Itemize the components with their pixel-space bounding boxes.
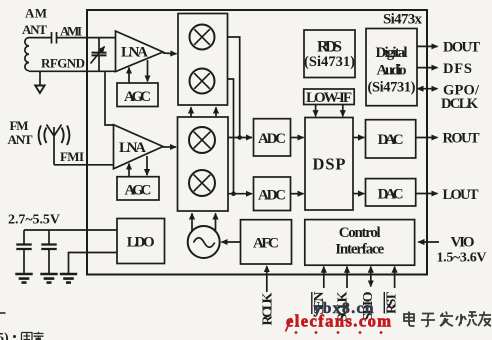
svg-text:DAC: DAC [378,187,404,203]
svg-text:RDS: RDS [317,39,342,56]
LOW-IF box [304,89,355,105]
wire FM mixer to ADC1 [228,137,252,139]
svg-text:AM: AM [25,6,47,21]
wire AM mixer Q output [228,79,234,194]
svg-text:LOW-IF: LOW-IF [306,90,352,106]
capacitor C2 lower lead [48,249,50,274]
svg-text:DCLK: DCLK [441,96,479,112]
watermark CJK 电 [404,312,415,327]
svg-text:LOUT: LOUT [443,187,479,203]
varactor branch wire bottom [98,55,100,71]
wire RST input [394,267,396,288]
svg-text:Control: Control [339,225,381,241]
chip boundary Si473x [87,10,427,275]
capacitor C2 [41,245,56,250]
variable capacitor plates [92,53,107,56]
wire SEN input [323,267,325,288]
wire LO to AM mixer arrow 2 [215,107,217,117]
ADC2 box [254,177,291,211]
ground AM antenna (open triangle) [35,86,44,94]
svg-text:DSP: DSP [313,155,346,174]
AGC2 box (FM) [117,177,159,200]
FM antenna symbol [47,125,62,144]
capacitor C1 [16,245,31,250]
wire LNA2 to AGC2 down arrow [146,156,148,175]
wire antenna ground drop [39,71,41,85]
svg-text:ROUT: ROUT [443,131,480,147]
watermark CJK 烧 [456,312,477,326]
AGC1 box (AM) [117,83,158,107]
inductor AM antenna coil [25,38,29,71]
wire ADC1 to DSP [291,137,304,139]
svg-text:2.7~5.5V: 2.7~5.5V [8,213,60,228]
watermark CJK 友 [478,312,491,327]
wire SCLK input [346,267,348,288]
wire RFGND rail [29,70,116,72]
overline RST [383,292,385,314]
svg-text:Interface: Interface [335,242,384,258]
svg-text:AMI: AMI [60,24,82,39]
svg-text:Digital: Digital [376,45,408,61]
wire ROUT output [416,137,438,139]
svg-text:LNA: LNA [121,45,148,61]
wire VIO input [418,241,439,243]
svg-text:(Si4731): (Si4731) [368,80,416,96]
ground C1 [15,274,32,283]
watermark red dots [295,331,383,334]
svg-text:DOUT: DOUT [443,40,480,56]
svg-text:elecfans.com: elecfans.com [286,312,391,331]
wire LNA1 to AGC1 down arrow [147,60,149,82]
svg-text:AFC: AFC [253,236,279,252]
AM mixer block [178,14,228,106]
variable capacitor arrow [91,47,105,64]
svg-text:AGC: AGC [124,89,151,105]
svg-text:RFGND: RFGND [41,56,85,71]
wire AMI to LNA1 [57,37,116,39]
overline SEN [311,292,313,314]
svg-text:AGC: AGC [125,183,152,199]
wire ADC2 to DSP [291,193,304,195]
DAC1 box [366,120,416,158]
wire GPO/DCLK bidirectional [417,88,437,90]
ground LDO [60,274,77,283]
wire FM antenna down [53,144,55,165]
wire oscillator to FM mixer arrow 1 [191,213,193,231]
svg-text:ANT: ANT [22,22,47,37]
svg-text:Audio: Audio [377,63,407,79]
svg-text:VIO: VIO [451,235,475,251]
mixer X1 (AM I) [190,25,215,50]
wire oscillator to FM mixer arrow 2 [215,213,217,232]
svg-text:ADC: ADC [258,188,286,204]
capacitor C2 lead [48,230,50,245]
LDO U2 [117,219,165,264]
watermark tick [286,318,292,332]
svg-text:ANT: ANT [8,132,33,147]
wire DFS output [417,67,438,69]
wire RFGND to LNA2 (L-shape) [105,71,114,125]
wire coil top to capacitor [29,37,52,39]
wire RCLK input [266,266,268,292]
oscillator LO [188,226,220,258]
caption CJK glyph 2 (家) [34,332,44,340]
capacitor C1 lead [23,230,25,245]
Digital Audio box [366,29,417,106]
svg-text:DFS: DFS [443,61,472,77]
node junction I [237,135,242,140]
wire LDO ground [69,253,118,275]
wire LOUT output [416,193,438,195]
op-amp LNA2 (FM) [114,125,164,169]
Control Interface box [305,220,415,266]
wire DSP to DAC1 [353,137,364,139]
wire DOUT output [417,45,438,47]
svg-text:FMI: FMI [60,149,84,164]
svg-text:Si473x: Si473x [383,12,423,28]
wire AGC1 feedback up arrow [128,68,130,84]
watermark CJK 发 [440,312,453,327]
wire LNA2 to FM mixer [163,146,176,148]
ground C2 [40,274,57,283]
DAC2 box [366,179,416,206]
svg-text:1.5~3.6V: 1.5~3.6V [437,251,487,266]
wire AGC2 feedback up arrow [128,164,130,177]
wire SDIO bidirectional [370,267,372,287]
capacitor C1 lower lead [23,249,25,274]
mixer X4 (FM Q) [189,170,215,196]
wire DSP to DAC2 [353,193,364,195]
wire LO to AM mixer arrow 1 [190,107,192,117]
svg-text:5): 5) [0,331,9,340]
wire FMI to LNA2 [54,164,114,166]
svg-text:LNA: LNA [119,140,146,156]
wire LNA1 to AM mixer [163,52,177,55]
wire FM mixer to ADC2 [228,193,252,195]
wire supply rail [24,229,117,231]
varactor branch wire top [98,38,100,53]
svg-text:(Si4731): (Si4731) [304,54,355,70]
svg-text:ADC: ADC [258,131,286,147]
ADC1 box [254,119,291,156]
watermark CJK 子 [421,314,435,327]
capacitor AMI coupling [52,32,57,44]
svg-text:DAC: DAC [378,132,404,148]
svg-text:LDO: LDO [127,235,155,251]
node junction Q [231,191,236,196]
op-amp LNA1 (AM) [116,31,164,72]
wire AFC to oscillator [222,241,241,243]
wire AM mixer I output [228,37,240,138]
mixer X2 (AM Q) [190,69,215,94]
DSP box [305,118,353,211]
svg-text:FM: FM [10,118,29,133]
AFC box [241,220,292,264]
wire LOW-IF to DSP arrow 1 [315,105,317,117]
FM mixer block [178,117,229,211]
mixer X3 (FM I) [189,127,215,153]
caption fragment bottom-left dash [0,312,6,314]
wire LOW-IF to DSP arrow 2 [342,105,344,117]
caption CJK glyph 1 (国) [22,333,33,340]
RDS box [304,30,355,78]
svg-text:RCLK: RCLK [261,292,276,325]
